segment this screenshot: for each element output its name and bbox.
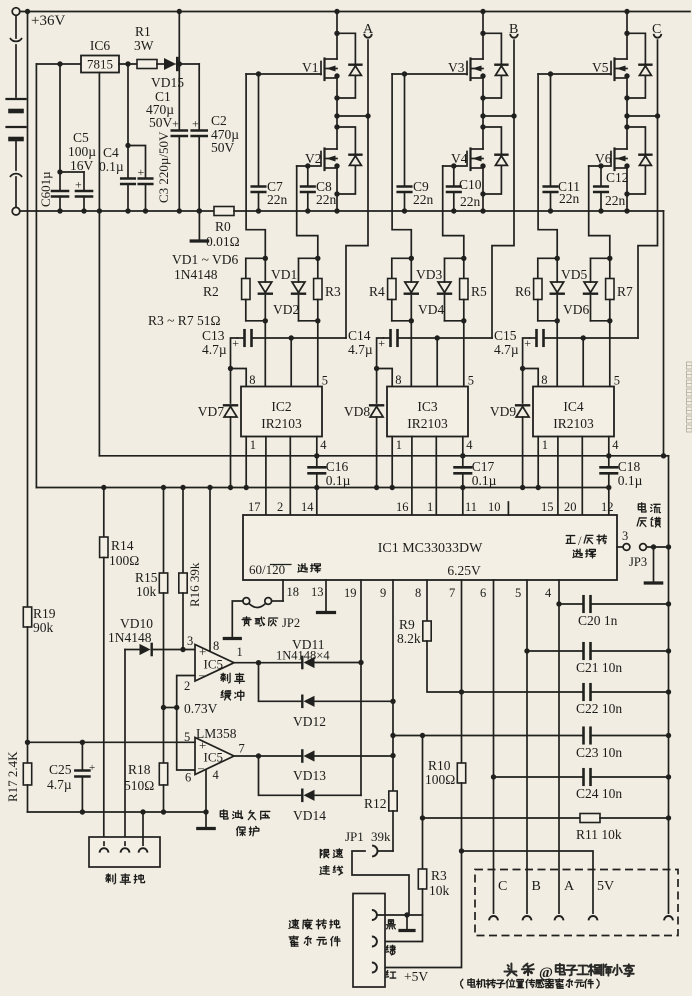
resistor R15 10k [135,485,168,763]
pin labels IC2 [249,373,328,452]
wire pair R3 down to driver [317,321,319,387]
wire gate riser to pair R4 [392,74,411,258]
wire pair top bar R3 [299,256,321,261]
svg-text:0.73V: 0.73V [184,701,218,716]
svg-text:5V: 5V [597,879,614,894]
wire current feedback right edge [663,211,665,456]
label C9 [413,179,434,207]
svg-text:VD13: VD13 [293,768,326,783]
svg-text:C4: C4 [103,145,119,160]
capacitor C11 22n [544,74,558,214]
svg-text:8: 8 [395,373,401,387]
svg-text:R15: R15 [135,570,158,585]
wire phase node jog to bootstrap C14 [492,116,514,338]
resistor R6 51ohm [515,258,542,321]
svg-text:4.7µ: 4.7µ [494,342,519,357]
svg-text:7: 7 [239,742,245,756]
wire IC4 LIN to controller [581,437,583,516]
wire pair top bar R5 [445,256,467,261]
wire regulator output to R1 [119,61,137,66]
node phase A [334,113,370,118]
wire VS riser IC4 [582,338,584,387]
wire phase node jog to bootstrap C15 [638,116,658,338]
capacitor C22 10n [576,684,671,716]
label R3-R7 51ohm [148,313,220,328]
svg-text:5: 5 [614,374,620,388]
label C11 [558,179,580,206]
svg-text:R17 2.4K: R17 2.4K [5,751,20,802]
wire pair top bar R4 [392,256,414,261]
svg-text:4.7µ: 4.7µ [202,342,227,357]
wire VD15 to C1 C2 node [177,61,200,66]
svg-text:10k: 10k [429,883,450,898]
wire pin6 column [491,580,496,913]
wire IC3 LIN to controller [435,437,437,516]
wire gate riser to pair R3 [297,166,318,258]
pin labels IC3 [395,373,474,452]
svg-text:50V: 50V [149,115,173,130]
svg-text:B: B [532,879,541,894]
svg-text:1N4148: 1N4148 [108,630,152,645]
svg-text:V1: V1 [302,60,319,75]
capacitor C9 22n [398,74,412,214]
svg-text:1N4148×4: 1N4148×4 [276,649,330,663]
wire pin7 column [461,580,463,763]
ground main [191,208,207,241]
svg-text:R3 ~ R7 51Ω: R3 ~ R7 51Ω [148,313,220,328]
svg-text:C16: C16 [326,459,349,474]
wire gate row high V3 [392,71,467,76]
capacitor C8 22n [301,166,315,214]
resistor R5 51ohm [460,258,487,321]
wire R1 to VD15 [157,63,164,65]
resistor R7 51ohm [606,258,633,321]
wire IC2 pin1 VCC to +15V [244,437,249,491]
svg-text:IC6: IC6 [90,38,111,53]
label VD4 [418,302,444,317]
terminal hall A [555,879,575,920]
svg-text:1: 1 [542,438,548,452]
svg-text:12: 12 [601,500,614,514]
svg-text:5: 5 [322,374,328,388]
wire IC3 pin1 VCC to +15V [390,437,395,491]
diode body V4 low side [480,124,507,196]
svg-text:2: 2 [277,500,283,514]
wire V1 source to phase node [336,78,338,116]
wire gate row low V4 [443,163,467,168]
svg-text:IC1 MC33033DW: IC1 MC33033DW [378,541,483,556]
connector break symbol top [10,38,22,97]
transistor V2 MOSFET low side [305,116,337,170]
wire phase A drain from +36V [334,9,339,59]
svg-text:R3: R3 [431,868,447,883]
diode VD10 1N4148 [108,616,195,655]
svg-text:+5V: +5V [404,969,428,984]
wire pair top bar R6 [538,256,560,261]
svg-text:V5: V5 [592,60,609,75]
svg-text:9: 9 [380,586,386,600]
svg-text:VD9: VD9 [490,404,516,419]
wire pair bottom bar R7 [591,318,613,323]
svg-text:8: 8 [415,586,421,600]
terminal A motor phase [363,22,374,116]
node phase B [480,113,516,118]
label C12 [605,170,629,208]
wire pin8 to R9 [426,580,428,621]
node brake handle box [89,812,160,867]
ground JP3 [645,547,661,583]
svg-text:4: 4 [466,438,473,452]
label C10 [459,177,482,209]
capacitor C6 0.1u [38,64,68,214]
capacitor C14 4.7u bootstrap [348,328,492,357]
svg-text:R18: R18 [128,762,151,777]
svg-text:C601µ: C601µ [38,171,53,207]
wire IC2 LIN to controller [289,437,291,516]
terminal hall B [523,879,541,920]
svg-text:18: 18 [287,585,300,599]
resistor R3 10k bottom [377,868,450,942]
svg-text:C23 10n: C23 10n [576,745,622,760]
label forward reverse select [566,534,606,558]
svg-text:510Ω: 510Ω [124,778,154,793]
diode body V2 low side [334,124,361,196]
svg-text:R1: R1 [135,24,151,39]
wire pin5 column [524,580,529,913]
svg-text:R2: R2 [203,284,219,299]
svg-text:IC5: IC5 [204,750,224,765]
wire IC4 rail to IC1 supply pin [608,488,610,516]
capacitor C24 10n [494,769,672,801]
wire pin13 to ground [325,580,327,611]
capacitor C2 470u 50V [192,64,240,214]
capacitor C7 22n [252,74,266,214]
wire pin9 column [390,580,395,791]
wire throttle signal column R3 [422,736,424,870]
label speed limit link [320,849,343,875]
svg-text:6: 6 [480,586,486,600]
svg-text:4.7µ: 4.7µ [47,777,72,792]
svg-text:R0: R0 [215,219,231,234]
resistor R18 510ohm [124,762,168,815]
label motor rotor position sensor [461,979,599,989]
svg-text:C10: C10 [459,177,482,192]
op-amp controller IC1 MC33033DW box [243,515,617,580]
wire op2 pin4 ground stub [205,770,207,812]
svg-text:/: / [578,534,582,548]
svg-text:15: 15 [541,500,554,514]
wire VD12 row [259,663,303,702]
diode VD13 [293,750,393,783]
connector break symbol bottom [10,174,22,208]
label +36V [31,13,65,29]
svg-text:13: 13 [311,585,324,599]
wire pair R7 down to driver [609,321,611,387]
wire pair top bar R7 [591,256,613,261]
svg-text:4: 4 [320,438,327,452]
svg-text:R6: R6 [515,284,531,299]
svg-text:0.01Ω: 0.01Ω [206,234,240,249]
capacitor C17 0.1u [455,456,497,490]
battery BT1 [7,99,26,170]
node pin3 JP3 [617,529,671,569]
wire gate riser to pair R7 [589,166,610,258]
transistor V5 MOSFET high side [592,59,627,81]
wire 5V drop to hall box [462,851,594,913]
svg-text:4: 4 [545,586,552,600]
svg-text:3: 3 [187,634,193,648]
resistor R2 51ohm [203,258,250,321]
svg-text:10k: 10k [136,584,157,599]
svg-text:C25: C25 [49,762,72,777]
wire bootstrap left to VD node [228,338,238,371]
watermark toutiao [504,964,634,981]
svg-text:VD1: VD1 [271,267,297,282]
diode VD gate on R4 column [405,258,418,321]
op-amp IC5 undervoltage [184,730,245,785]
wire V5 source to phase node [626,78,628,116]
wire VB node to pin 8 IC3 [377,369,393,387]
wire V6 source to ground rail [624,168,629,214]
diode VD15 [151,58,184,90]
resistor R3 51ohm [314,258,341,321]
wire R9 to C22 row [427,641,583,695]
svg-text:8: 8 [213,639,219,653]
svg-text:0.1µ: 0.1µ [618,473,643,488]
svg-text:A: A [564,879,575,894]
wire IC2 HIN to controller [265,437,267,516]
battery connector terminal top [12,8,20,38]
resistor R1 3W [134,24,157,69]
terminal hall C [489,879,507,920]
wire bootstrap left to VD node [374,338,384,371]
svg-text:8.2k: 8.2k [397,631,421,646]
svg-text:JP1: JP1 [345,829,364,844]
diode body V3 high side [480,31,507,101]
wire IC2 rail to IC1 supply pin [316,488,318,516]
node JP2 jumper [232,598,283,637]
label brake buffer [221,673,245,700]
resistor R4 51ohm [369,258,396,321]
wire VS riser IC2 [290,338,292,387]
svg-text:VD6: VD6 [563,302,589,317]
wire VB node to pin 8 IC2 [231,369,247,387]
diode VD gate on R6 column [551,258,564,321]
svg-text:R10: R10 [428,758,451,773]
label LM358 [196,726,237,741]
svg-text:VD4: VD4 [418,302,444,317]
wire op1 output row VD11 [234,660,302,665]
wire pair R6 down to driver [556,321,558,387]
wire phase node jog to bootstrap C13 [346,116,368,338]
battery connector terminal bottom [12,207,20,215]
svg-text:0.1µ: 0.1µ [472,473,497,488]
svg-text:C5: C5 [73,130,89,145]
svg-text:+36V: +36V [31,13,65,29]
wire pair bottom bar R5 [445,318,467,323]
capacitor C20 1n [559,596,671,628]
label 60/120 select [249,562,321,577]
diode VD11 [276,637,361,668]
transistor V6 MOSFET low side [595,116,627,170]
pin labels IC1 top [248,500,614,514]
pin stub IC1 pin10 [507,502,509,515]
label C7 [267,179,288,207]
wire V3 source to phase node [482,78,484,116]
svg-text:VD1 ~ VD6: VD1 ~ VD6 [172,252,239,267]
svg-text:VD2: VD2 [273,302,299,317]
node phase C [624,113,660,118]
svg-text:C17: C17 [472,459,495,474]
wire IC2 pin4 COM [314,437,319,459]
svg-text:V6: V6 [595,151,612,166]
ground pin13 [318,611,335,614]
capacitor C3 220u 50V [128,131,171,214]
svg-text:IR2103: IR2103 [261,416,302,431]
wire +15V rail [36,487,608,489]
svg-text:VD12: VD12 [293,714,326,729]
svg-text:VD8: VD8 [344,404,370,419]
label VD2 [273,302,299,317]
svg-text:16: 16 [396,500,409,514]
ground undervoltage [198,812,214,829]
wire phase C drain from +36V [624,9,629,59]
wire gate row high V1 [246,71,321,76]
svg-text:3W: 3W [134,38,154,53]
svg-text:+: + [192,117,199,131]
svg-text:22n: 22n [559,191,580,206]
svg-text:JP2: JP2 [282,616,300,630]
svg-text:100Ω: 100Ω [425,772,455,787]
wire pair R5 down to driver [463,321,465,387]
wire IC4 pin1 VCC to +15V [536,437,541,491]
svg-text:C12: C12 [606,170,629,185]
svg-text:C3 220µ/50V: C3 220µ/50V [156,131,171,203]
terminal throttle black [372,910,423,920]
diode body V6 low side [624,124,651,196]
label VD6 [563,302,589,317]
svg-text:6: 6 [185,771,191,785]
wire V4 source to ground rail [480,168,485,214]
svg-text:16V: 16V [70,158,94,173]
svg-text:100Ω: 100Ω [109,553,139,568]
wire IC4 HIN to controller [557,437,559,516]
svg-text:3: 3 [622,529,628,543]
svg-text:8: 8 [541,373,547,387]
wire ground bottom rail right [234,210,664,212]
capacitor C25 4.7u [47,742,95,814]
terminal hall 5V [589,879,615,920]
svg-text:VD7: VD7 [198,404,224,419]
wire VS riser IC3 [436,338,438,387]
svg-text:5: 5 [515,586,521,600]
svg-text:0.1µ: 0.1µ [326,473,351,488]
svg-text:VD5: VD5 [561,267,587,282]
wire R19 R17 divider column [25,9,30,607]
svg-text:JP3: JP3 [629,555,647,569]
resistor R17 2.4K [5,742,32,812]
diode VD gate on R5 loop [438,258,451,321]
wire 36V to regulator input [36,61,81,66]
wire gate riser to pair R2 [246,74,265,258]
capacitor C23 10n [393,728,671,760]
diode VD14 [293,790,361,823]
diode VD8 bootstrap charge [344,369,383,491]
terminal hall ground [664,916,673,920]
capacitor C15 4.7u bootstrap [494,328,638,357]
svg-text:V3: V3 [448,60,465,75]
terminal throttle green [372,937,377,947]
svg-text:4: 4 [213,768,220,782]
diode VD gate on R2 column [259,258,272,321]
svg-text:17: 17 [248,500,261,514]
wire feedback jog at COM row right [664,455,669,457]
svg-text:IR2103: IR2103 [553,416,594,431]
label VD5 [561,267,587,282]
wire IC3 rail to IC1 supply pin [462,488,464,516]
wire VB node to pin 8 IC4 [523,369,539,387]
svg-text:C: C [498,879,507,894]
diode body V5 high side [624,31,651,101]
svg-text:+: + [75,178,82,192]
svg-text:10: 10 [488,500,501,514]
svg-text:C24 10n: C24 10n [576,786,622,801]
svg-text:R5: R5 [471,284,487,299]
wire bootstrap left to VD node [520,338,530,371]
svg-text:+: + [138,165,145,179]
svg-text:C2: C2 [211,113,227,128]
wire gate row low V6 [589,163,611,168]
svg-text:R4: R4 [369,284,385,299]
wire gate riser to pair R6 [538,74,557,258]
svg-text:6.25V: 6.25V [447,563,481,578]
wire brake middle column [124,650,126,843]
svg-text:4.7µ: 4.7µ [348,342,373,357]
wire pair bottom bar R4 [392,318,414,323]
node JP1 speed limit jumper [345,829,409,915]
svg-text:19: 19 [344,586,357,600]
wire pair bottom bar R3 [299,318,321,323]
terminal B motor phase [509,22,518,116]
transistor V3 MOSFET high side [448,59,483,81]
svg-text:IR2103: IR2103 [407,416,448,431]
wire pin18 to JP2 [282,580,284,601]
label black [387,920,396,929]
svg-text:90k: 90k [33,620,54,635]
label brake handle [106,874,145,884]
wire pair bottom bar R6 [538,318,560,323]
wire 7815 ground pin down [97,73,102,456]
capacitor C10 22n [447,166,461,214]
svg-text:IC4: IC4 [563,399,584,414]
label speed throttle hall element [289,919,340,946]
svg-text:@: @ [539,965,553,981]
capacitor C1 470u 50V [146,89,187,214]
capacitor C12 22n [594,166,608,214]
resistor R9 8.2k [397,617,431,646]
node throttle box [353,894,385,988]
wire +36V branch down at 179 [177,9,182,130]
wire phase B drain from +36V [480,9,485,59]
svg-text:100µ: 100µ [68,144,96,159]
svg-text:20: 20 [564,500,577,514]
svg-text:R12: R12 [364,796,387,811]
wire COM signal row [99,453,668,458]
label green [386,945,395,955]
svg-text:1: 1 [237,645,243,659]
pin labels IC1 bottom [287,585,553,600]
wire IC3 pin4 COM [460,437,465,459]
